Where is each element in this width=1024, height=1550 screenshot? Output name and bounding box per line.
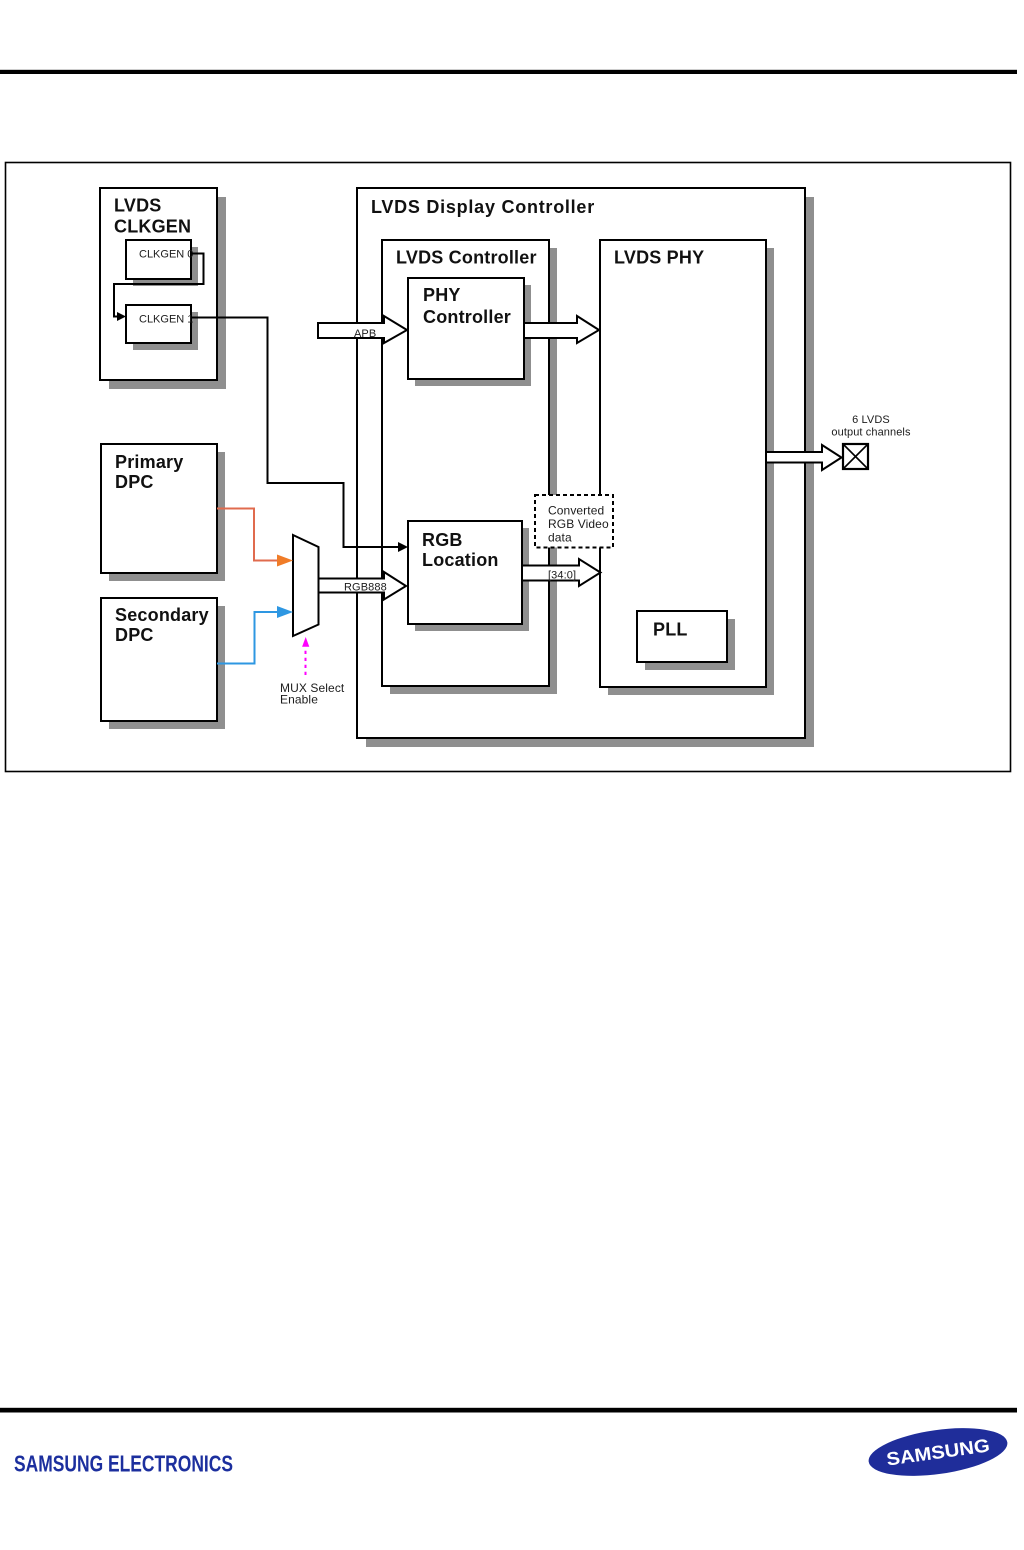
node LVDS output port (crossed box) — [843, 444, 868, 469]
svg-text:Primary: Primary — [115, 452, 183, 472]
svg-text:SAMSUNG ELECTRONICS: SAMSUNG ELECTRONICS — [14, 1451, 233, 1477]
box LVDS Controller — [382, 240, 557, 694]
box CLKGEN 0 — [126, 240, 198, 286]
box LVDS Display Controller — [357, 188, 814, 747]
arrow [34:0] (hollow) — [522, 559, 601, 586]
box Secondary DPC — [101, 598, 225, 729]
svg-text:[34:0]: [34:0] — [548, 570, 576, 582]
wire CLKGEN0 to CLKGEN1 — [114, 254, 204, 317]
svg-text:Converted: Converted — [548, 504, 604, 518]
svg-text:Enable: Enable — [280, 693, 318, 707]
mux M1 — [293, 535, 319, 636]
wire CLKGEN1 to RGB Location — [191, 318, 399, 548]
figure frame — [6, 163, 1011, 772]
svg-text:DPC: DPC — [115, 472, 154, 492]
svg-text:LVDS PHY: LVDS PHY — [614, 248, 704, 268]
arrow LVDS output (hollow) — [766, 445, 842, 470]
wire blue Secondary DPC to mux — [217, 612, 278, 664]
svg-text:LVDS: LVDS — [114, 196, 161, 216]
box RGB Location — [408, 521, 529, 631]
top rule — [0, 70, 1017, 74]
svg-text:LVDS Controller: LVDS Controller — [396, 248, 537, 268]
svg-text:APB: APB — [354, 328, 376, 340]
arrow PHY Controller to LVDS PHY (hollow) — [524, 316, 599, 343]
svg-text:PHY: PHY — [423, 285, 461, 305]
box LVDS PHY — [600, 240, 774, 695]
box PHY Controller U1 — [408, 278, 531, 386]
wire magenta MUX select (dashed, arrow up) — [305, 647, 307, 675]
box CLKGEN 1 — [126, 305, 198, 350]
svg-text:Controller: Controller — [423, 307, 511, 327]
dashed box Converted RGB Video data — [535, 495, 613, 548]
footer Samsung logo — [866, 1420, 1011, 1483]
box Primary DPC — [101, 444, 225, 581]
box PLL — [637, 611, 735, 670]
svg-text:Secondary: Secondary — [115, 605, 209, 625]
svg-text:RGB: RGB — [422, 530, 463, 550]
svg-text:CLKGEN: CLKGEN — [114, 217, 191, 237]
svg-text:CLKGEN 1: CLKGEN 1 — [139, 314, 193, 326]
svg-text:RGB Video: RGB Video — [548, 517, 609, 531]
svg-text:6 LVDS: 6 LVDS — [852, 414, 890, 426]
box LVDS CLKGEN — [100, 188, 226, 389]
arrow RGB888 (hollow) — [319, 572, 407, 600]
footer rule — [0, 1408, 1017, 1413]
svg-text:LVDS Display Controller: LVDS Display Controller — [371, 197, 595, 217]
svg-text:data: data — [548, 531, 572, 545]
svg-text:output channels: output channels — [831, 427, 911, 439]
svg-text:CLKGEN 0: CLKGEN 0 — [139, 249, 193, 261]
svg-text:DPC: DPC — [115, 625, 154, 645]
wire orange Primary DPC to mux — [217, 509, 278, 561]
arrow APB (hollow) — [318, 316, 407, 343]
svg-text:Location: Location — [422, 550, 499, 570]
svg-text:RGB888: RGB888 — [344, 582, 387, 594]
svg-text:PLL: PLL — [653, 620, 688, 640]
